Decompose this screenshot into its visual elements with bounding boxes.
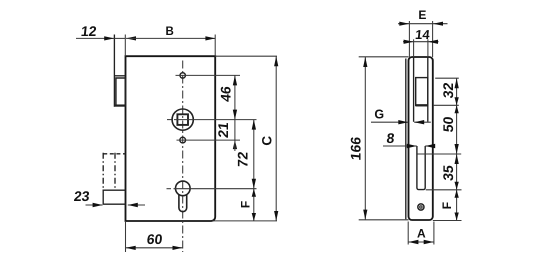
svg-text:72: 72: [235, 151, 251, 168]
svg-text:A: A: [417, 227, 426, 241]
svg-text:14: 14: [414, 27, 431, 42]
svg-text:E: E: [418, 8, 426, 22]
svg-text:32: 32: [440, 82, 456, 99]
svg-text:F: F: [440, 202, 454, 209]
svg-text:12: 12: [80, 23, 97, 39]
svg-text:23: 23: [73, 188, 90, 204]
svg-text:B: B: [165, 26, 173, 38]
svg-text:46: 46: [218, 85, 234, 102]
svg-text:21: 21: [215, 121, 231, 138]
svg-text:166: 166: [348, 136, 364, 161]
svg-text:C: C: [260, 136, 275, 146]
svg-text:35: 35: [440, 164, 456, 181]
svg-text:F: F: [239, 201, 253, 208]
svg-text:60: 60: [146, 231, 163, 247]
svg-text:G: G: [374, 107, 384, 121]
svg-text:50: 50: [440, 115, 456, 132]
